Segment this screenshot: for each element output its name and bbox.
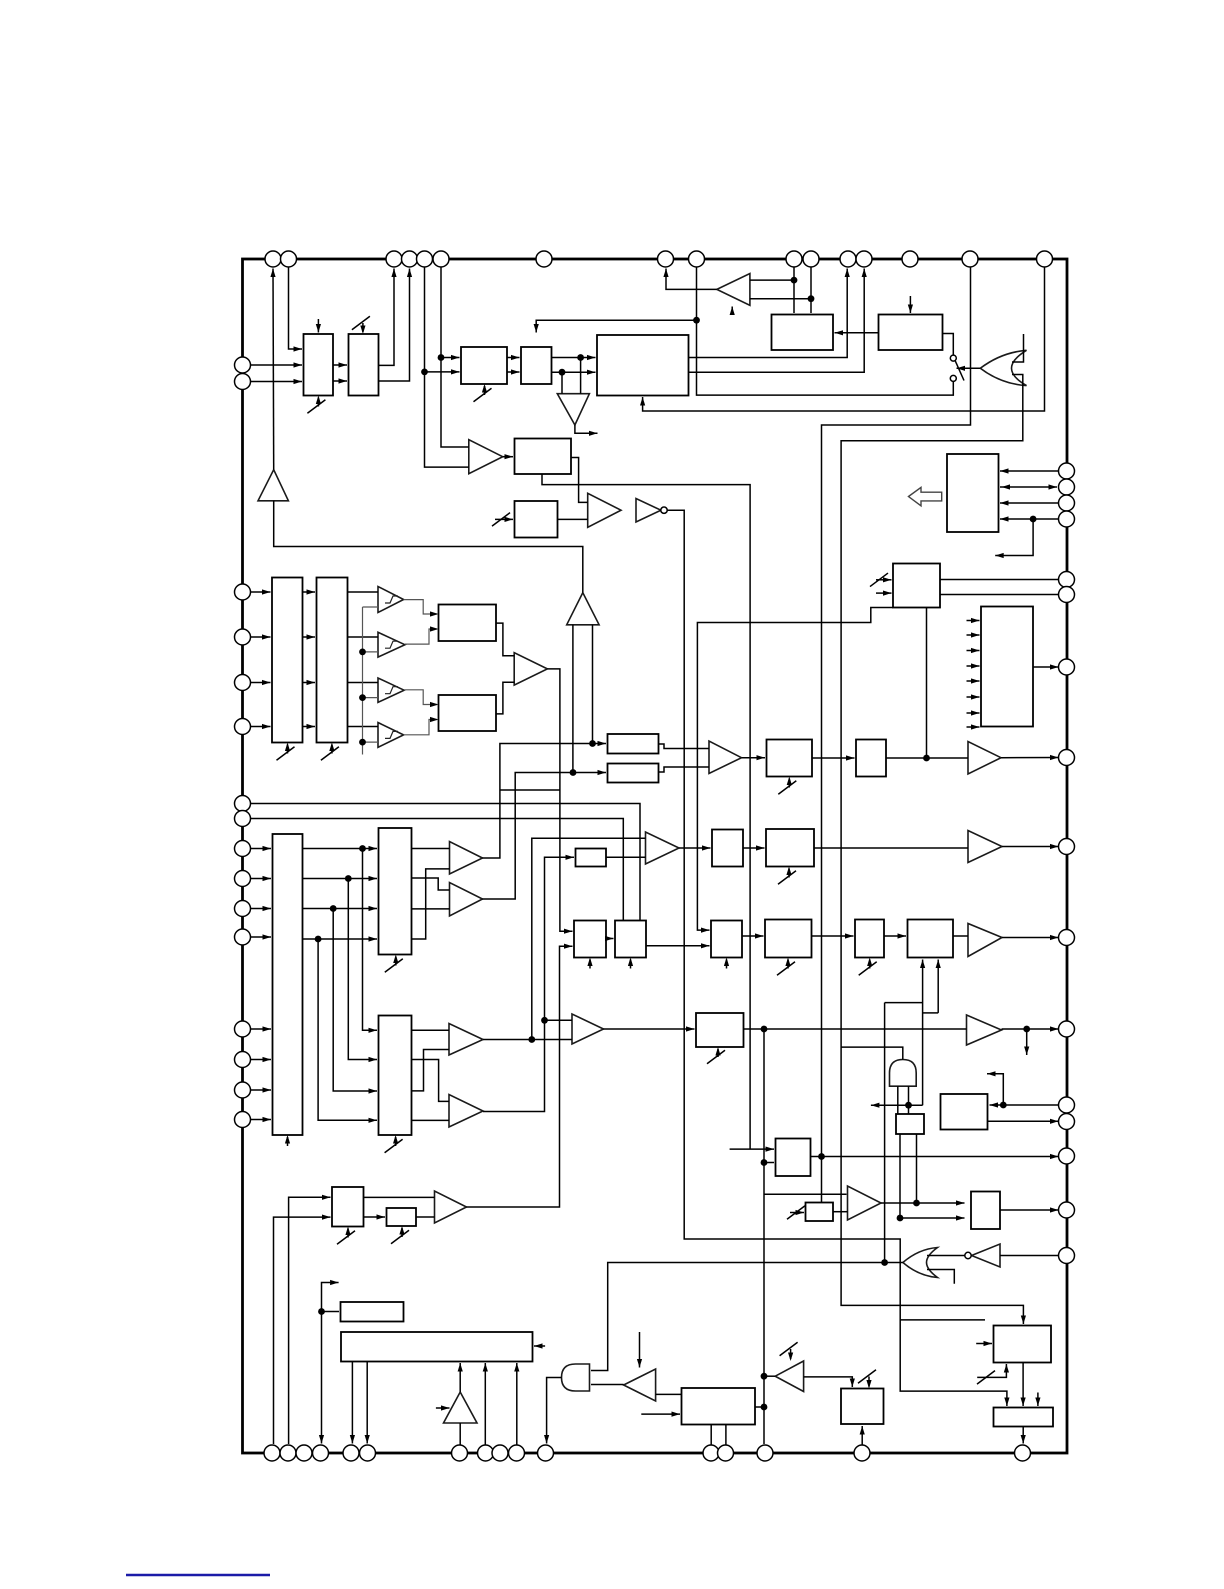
buffer A5 bbox=[514, 653, 547, 685]
wire pin11 to U6 bbox=[810, 267, 812, 313]
pin left 1 bbox=[235, 357, 251, 373]
wire U30 to U31 bbox=[884, 935, 906, 937]
buffer A12 bbox=[968, 831, 1002, 863]
block latch U4 bbox=[521, 347, 552, 384]
wire enable stub A22 bbox=[639, 1332, 641, 1368]
clock U24 bbox=[788, 869, 790, 878]
clock U19 bbox=[788, 779, 790, 788]
wire A23 in from U44 bbox=[804, 1377, 853, 1387]
pin left 5 bbox=[235, 675, 251, 691]
buffer A9 bbox=[709, 741, 742, 774]
wire U33 out to A17 bbox=[744, 1028, 967, 1030]
block latch U22 bbox=[576, 849, 607, 867]
pin bottom 14 bbox=[757, 1445, 773, 1461]
wire node to A8 b bbox=[750, 298, 811, 300]
wire test net pin15 bbox=[822, 267, 971, 1203]
wire node hook up bbox=[987, 1074, 1003, 1105]
block control U36 bbox=[776, 1139, 811, 1177]
pin right 9 bbox=[1059, 839, 1075, 855]
clock U9 bbox=[492, 513, 510, 527]
pin left 13 bbox=[235, 1021, 251, 1037]
wire G2 stub b bbox=[927, 1270, 954, 1284]
wire A5 out to U26 bbox=[547, 669, 572, 931]
pin top 12 bbox=[840, 251, 856, 267]
pin top 6 bbox=[433, 251, 449, 267]
wire G3 out to pin B11 bbox=[547, 1378, 562, 1444]
wire U11 to pin R5 bbox=[940, 579, 1059, 581]
wire U43 out node bbox=[755, 1406, 764, 1408]
wire pin to U25 y1119.5 bbox=[251, 1119, 272, 1121]
block output latch U40 bbox=[971, 1192, 1000, 1230]
OR gate G2 (left-facing) bbox=[903, 1248, 938, 1278]
wire U11 bottom right leg bbox=[926, 608, 928, 759]
pin bottom 3 bbox=[296, 1445, 312, 1461]
buffer A17 bbox=[967, 1015, 1002, 1045]
wire U24 to A12 bbox=[814, 847, 968, 849]
block register U7 bbox=[879, 315, 943, 351]
pin top 3 bbox=[386, 251, 402, 267]
pin left 8 bbox=[235, 811, 251, 827]
wire pin R16 to A24 bbox=[1000, 1255, 1059, 1257]
AND gate G3 (left-facing) bbox=[562, 1364, 590, 1391]
pin bottom 9 bbox=[492, 1445, 508, 1461]
pin left 12 bbox=[235, 929, 251, 945]
pin top 10 bbox=[786, 251, 802, 267]
wire node down x884 bbox=[884, 1003, 886, 1263]
wire U14 to A29 bbox=[348, 726, 379, 728]
wire U25 to U21 b bbox=[303, 878, 378, 880]
block divider U20 bbox=[856, 740, 886, 777]
bus arrow symbol bbox=[909, 487, 942, 505]
wire A12 to pin R9 bbox=[1002, 846, 1059, 848]
wire branch to U32 in4 bbox=[318, 939, 377, 1120]
pin top 2 bbox=[281, 251, 297, 267]
pin left 16 bbox=[235, 1112, 251, 1128]
wire A15 to pin R10 bbox=[1002, 937, 1059, 939]
wire A10 to pin R8 bbox=[1001, 757, 1059, 759]
block data register U32 bbox=[379, 1016, 412, 1136]
pin bottom 13 bbox=[718, 1445, 734, 1461]
wire U29 to U30 bbox=[812, 935, 854, 937]
wire U46 out to pin B16 bbox=[1022, 1427, 1024, 1444]
wire G4 inputs bbox=[897, 1086, 899, 1114]
block clock generator U42 bbox=[341, 1332, 533, 1362]
block power-on reset U45 bbox=[994, 1326, 1052, 1363]
block shift register U11 bbox=[893, 564, 940, 608]
wire pin9 to switch contact bbox=[697, 267, 954, 395]
wire branch stub bbox=[900, 1319, 985, 1321]
pin left 9 bbox=[235, 841, 251, 857]
wire node down stub bbox=[1026, 1029, 1028, 1055]
wire link y790 bbox=[500, 789, 560, 791]
wire pin R3 to U10 bbox=[1000, 502, 1059, 504]
clock U32 bbox=[395, 1137, 397, 1146]
wire U42 to pin B5 bbox=[351, 1362, 353, 1444]
pin bottom 8 bbox=[478, 1445, 494, 1461]
block timer U37 bbox=[332, 1187, 364, 1227]
wire pin B2 up to U37 bbox=[289, 1197, 331, 1444]
wire stub U12 in 7 bbox=[967, 712, 980, 714]
schmitt trigger A27 bbox=[378, 632, 405, 657]
clock input U39 bbox=[787, 1206, 805, 1220]
wire stub to U43 bbox=[641, 1413, 680, 1415]
wire U19 to U20 bbox=[812, 757, 855, 759]
wire G1 out to SW1 bbox=[957, 367, 981, 369]
wire pin17 to U1 bbox=[251, 364, 303, 366]
wire U33 net down bbox=[763, 1029, 765, 1444]
wire pin L8 net bbox=[251, 819, 624, 921]
wire U12 to pin R7 bbox=[1033, 666, 1059, 668]
wire A7 long net bbox=[667, 510, 1007, 1406]
bus shaft of A2 bbox=[573, 625, 593, 773]
wire pin to U13 y637 bbox=[251, 636, 271, 638]
wire U5 to pin13 bbox=[689, 269, 865, 373]
pin left 14 bbox=[235, 1052, 251, 1068]
clock U25 bbox=[287, 1137, 289, 1146]
wire A26 out to U15 bbox=[404, 600, 437, 614]
wire pin B15 to U44 bbox=[861, 1426, 863, 1445]
pin top 7 bbox=[536, 251, 552, 267]
wire node to U41 bbox=[322, 1311, 340, 1313]
pin left 15 bbox=[235, 1082, 251, 1098]
clock U30 bbox=[869, 960, 871, 969]
clock U28 bbox=[726, 960, 728, 969]
block latch U26 bbox=[574, 921, 606, 958]
pin top 8 bbox=[658, 251, 674, 267]
wire U4 to U5 b bbox=[552, 371, 596, 373]
block watchdog U43 bbox=[682, 1388, 756, 1425]
buffer A16 bbox=[572, 1014, 604, 1044]
clock U2 bbox=[362, 323, 364, 332]
wire G2 out to G3 bbox=[591, 1263, 903, 1371]
wire G4 out up bbox=[841, 1047, 903, 1059]
block divider U38 bbox=[387, 1208, 417, 1226]
pin right 11 bbox=[1059, 1021, 1075, 1037]
wire A25 to U42 bbox=[459, 1363, 461, 1392]
wire stub U12 in 2 bbox=[967, 634, 980, 636]
OR gate G1 (left-facing) bbox=[980, 350, 1026, 385]
pin right 12 bbox=[1059, 1097, 1075, 1113]
pin right 14 bbox=[1059, 1148, 1075, 1164]
pin top 9 bbox=[689, 251, 705, 267]
wire net to A21 in1 bbox=[764, 1193, 847, 1195]
inverter A23 bbox=[775, 1361, 803, 1392]
pin bottom 4 bbox=[313, 1445, 329, 1461]
wire U20 to A10 bbox=[886, 757, 968, 759]
wire stub U12 in 1 bbox=[967, 620, 980, 622]
block timer U8 bbox=[515, 439, 572, 475]
wire pin18 to U1 bbox=[251, 381, 303, 383]
wire A2 to A1 bbox=[274, 501, 583, 593]
clock U29 bbox=[787, 960, 789, 969]
wire pin to U25 y1029 bbox=[251, 1028, 272, 1030]
wire U13 to U14 y726.5 bbox=[303, 726, 316, 728]
wire U1 to U2 a bbox=[333, 364, 347, 366]
wire G4 input b bbox=[908, 1086, 910, 1114]
wire A18 out net bbox=[483, 1039, 572, 1041]
wire U37 to A20 a bbox=[364, 1196, 435, 1198]
block counter U3 bbox=[461, 347, 507, 384]
block prescaler U1 bbox=[304, 334, 334, 396]
block oscillator U41 bbox=[341, 1302, 404, 1322]
wire A27 out to U15 bbox=[405, 629, 437, 644]
pin right 5 bbox=[1059, 572, 1075, 588]
wire A13 out to U17 bbox=[483, 744, 607, 859]
wire pin16 net to U5 bottom bbox=[643, 267, 1045, 411]
wire pin6 net bbox=[441, 267, 469, 447]
wire U34 to U40 b bbox=[900, 1134, 965, 1218]
pin bottom 10 bbox=[509, 1445, 525, 1461]
buffer A6 bbox=[588, 493, 621, 527]
block input register U13 bbox=[272, 578, 303, 743]
clock U44 bbox=[868, 1377, 870, 1387]
wire stub U12 in 5 bbox=[967, 680, 980, 682]
wire U1 to U2 b bbox=[333, 380, 347, 382]
wire up into U31 b bbox=[937, 960, 939, 1013]
pin left 10 bbox=[235, 871, 251, 887]
footer rule bbox=[126, 1574, 270, 1577]
wire U18 to A9 bbox=[659, 767, 710, 772]
wire pin B8 into U42 bbox=[484, 1363, 486, 1445]
clock U27 bbox=[630, 960, 632, 969]
block register U17 bbox=[608, 734, 659, 754]
wire node to U36 b bbox=[764, 1162, 774, 1164]
wire clk stub U39 bbox=[790, 1212, 804, 1214]
pin left 2 bbox=[235, 374, 251, 390]
wire U38 to A20 b bbox=[416, 1216, 435, 1218]
pin right 16 bbox=[1059, 1248, 1075, 1264]
buffer A4 bbox=[469, 440, 503, 474]
analog switch SW1 bbox=[950, 355, 956, 361]
wire pin to U25 y1090 bbox=[251, 1089, 272, 1091]
wire U35 to pin R13 bbox=[988, 1120, 1059, 1122]
wire node to A8 a bbox=[750, 279, 794, 281]
wire A9 to U19 bbox=[742, 757, 766, 759]
pin left 7 bbox=[235, 796, 251, 812]
wire U11 to pin R6 bbox=[940, 594, 1059, 596]
wire U32 to A18 in1 bbox=[412, 1029, 450, 1031]
wire branch to U32 in1 bbox=[363, 849, 378, 1031]
pin left 11 bbox=[235, 901, 251, 917]
inverter A24 bbox=[972, 1244, 1001, 1267]
wire clock into U45 bbox=[977, 1364, 1006, 1377]
pin bottom 7 bbox=[452, 1445, 468, 1461]
wire U2 to pin4 bbox=[379, 269, 410, 382]
pin top 1 bbox=[265, 251, 281, 267]
pin left 4 bbox=[235, 629, 251, 645]
wire A24 to G2 bbox=[927, 1255, 965, 1257]
wire node up to A11 in1 bbox=[532, 838, 646, 1039]
wire pin5 branch to U3 bbox=[425, 371, 460, 373]
wire U14 to A27 bbox=[348, 636, 379, 638]
pin right 6 bbox=[1059, 587, 1075, 603]
wire U4 to U5 a bbox=[552, 357, 596, 359]
wire U23 to U24 bbox=[743, 847, 765, 849]
wire U11 bottom to U28 bbox=[697, 608, 893, 931]
wire node to A3 a bbox=[580, 358, 582, 394]
wire up into U31 a bbox=[922, 960, 924, 1106]
wire into U1 top bbox=[317, 319, 319, 333]
wire A19 up to U22 bbox=[483, 857, 574, 1111]
pin bottom 2 bbox=[280, 1445, 296, 1461]
pin bottom 15 bbox=[854, 1445, 870, 1461]
clock U14 bbox=[331, 745, 333, 754]
wire pin2 to U1 bbox=[289, 267, 303, 349]
buffer A15 bbox=[968, 924, 1002, 957]
wire A8 to pin8 bbox=[666, 269, 717, 290]
wire stub U11 in a bbox=[876, 579, 892, 581]
wire pin R12 to U35 bbox=[990, 1104, 1059, 1106]
schmitt trigger A28 bbox=[378, 678, 404, 702]
block latch U28 bbox=[711, 921, 742, 958]
wire link c bbox=[885, 1002, 923, 1004]
schmitt trigger A29 bbox=[378, 723, 404, 748]
wire U31 to A15 bbox=[953, 935, 968, 937]
block divider U30 bbox=[855, 920, 884, 958]
wire link b bbox=[923, 1012, 939, 1014]
buffer A20 bbox=[435, 1191, 467, 1223]
wire U8 right jog bbox=[571, 458, 588, 503]
reference net for schmitt triggers bbox=[363, 607, 379, 755]
clock U33 bbox=[717, 1049, 719, 1057]
wire U43 to A22 bbox=[656, 1393, 682, 1395]
wire pin to U13 y726.5 bbox=[251, 726, 271, 728]
wire U14 to A26 bbox=[348, 591, 379, 593]
clock U21 bbox=[395, 957, 397, 966]
buffer A14 bbox=[450, 883, 483, 917]
wire U28 to U29 bbox=[742, 935, 764, 937]
schmitt trigger A26 bbox=[378, 587, 404, 613]
buffer A3 bbox=[557, 394, 589, 425]
block divider U39 bbox=[806, 1203, 834, 1222]
wire A21 out to U40 bbox=[881, 1202, 965, 1204]
wire pin B10 into U42 bbox=[516, 1363, 518, 1445]
inverter A7 bbox=[636, 499, 661, 523]
wire pin to U25 y908.5 bbox=[251, 908, 272, 910]
wire A11 to U23 bbox=[679, 847, 711, 849]
wire A1 to pin1 bbox=[272, 269, 275, 470]
block encoder U15 bbox=[439, 605, 497, 642]
block decoder U12 bbox=[981, 607, 1033, 727]
buffer A13 bbox=[450, 842, 483, 875]
wire pin10 to U6 bbox=[793, 267, 795, 313]
clock U38 bbox=[401, 1228, 403, 1237]
clock U1 bbox=[317, 398, 319, 407]
wire pin5 net bbox=[425, 267, 469, 467]
wire G1 input A stub bbox=[1012, 334, 1024, 362]
pin bottom 1 bbox=[264, 1445, 280, 1461]
block port register U25 bbox=[273, 834, 303, 1135]
buffer A19 bbox=[449, 1095, 483, 1128]
pin right 2 bbox=[1059, 479, 1075, 495]
buffer A18 bbox=[449, 1024, 483, 1056]
wire U45 out to U46 bbox=[1022, 1363, 1024, 1407]
wire A14 out to U18 bbox=[483, 773, 607, 900]
pin bottom 6 bbox=[360, 1445, 376, 1461]
wire U42 to pin B6 bbox=[366, 1362, 368, 1444]
wire U17 to A9 bbox=[659, 744, 710, 749]
clock U26 bbox=[589, 960, 591, 969]
pin right 1 bbox=[1059, 463, 1075, 479]
block input latch U14 bbox=[317, 578, 348, 743]
wire A8 enable stub bbox=[731, 307, 733, 314]
pin top 13 bbox=[856, 251, 872, 267]
wire U27 to U28 bbox=[646, 945, 710, 947]
block divider U23 bbox=[712, 830, 743, 867]
inverter A22 bbox=[624, 1369, 656, 1401]
wire U5 to pin12 bbox=[689, 269, 848, 358]
wire stub U12 in 8 bbox=[967, 726, 980, 728]
wire stub U12 in 4 bbox=[967, 665, 980, 667]
pin bottom 12 bbox=[703, 1445, 719, 1461]
block counter U29 bbox=[765, 920, 812, 958]
pin right 3 bbox=[1059, 495, 1075, 511]
wire U15 to A5 bbox=[496, 623, 514, 656]
wire pin6 branch to U3 bbox=[441, 357, 460, 359]
wire pin L7 net bbox=[251, 804, 641, 921]
IC outline border bbox=[243, 259, 1068, 1453]
wire A3 output bbox=[575, 425, 598, 433]
wire A16 to U33 bbox=[604, 1028, 695, 1030]
buffer A10 bbox=[968, 742, 1001, 775]
buffer A21 bbox=[848, 1186, 882, 1220]
wire A29 out to U16 bbox=[404, 720, 437, 735]
pin top 4 bbox=[402, 251, 418, 267]
wire A28 out to U16 bbox=[404, 690, 437, 705]
block encoder U16 bbox=[439, 695, 497, 731]
wire stub into U42 bbox=[534, 1345, 545, 1347]
wire U43 to pin B13 bbox=[725, 1425, 727, 1446]
block latch U27 bbox=[615, 921, 646, 958]
block data register U21 bbox=[379, 828, 412, 955]
block counter U24 bbox=[766, 829, 814, 867]
pin top 14 bbox=[902, 251, 918, 267]
wire A20 out to U26 bbox=[467, 946, 573, 1207]
wire U3 to U4 b bbox=[507, 371, 520, 373]
wire U39 to A21 bbox=[833, 1211, 848, 1213]
wire node into U4 top bbox=[536, 320, 696, 332]
pin right 13 bbox=[1059, 1114, 1075, 1130]
wire U43 to pin B12 bbox=[710, 1425, 712, 1446]
pin left 6 bbox=[235, 719, 251, 735]
pin right 7 bbox=[1059, 659, 1075, 675]
wire U40 to pin R15 bbox=[1000, 1209, 1059, 1211]
wire stub U12 in 6 bbox=[967, 696, 980, 698]
wire branch to U32 in3 bbox=[333, 909, 377, 1092]
wire U32 to A19 in2 bbox=[412, 1119, 450, 1121]
buffer A2 bbox=[567, 593, 599, 625]
wire pin B1 up to U37 bbox=[274, 1217, 331, 1444]
wire U16 to A5 bbox=[496, 682, 514, 714]
wire pin B7 to A25 bbox=[459, 1423, 461, 1445]
wire pin to U13 y682.5 bbox=[251, 682, 271, 684]
wire branch to G1 input B bbox=[1012, 375, 1023, 412]
wire U25 to U21 a bbox=[303, 848, 378, 850]
pin bottom 11 bbox=[538, 1445, 554, 1461]
wire xtal net bbox=[322, 1283, 339, 1444]
wire stub into U7 top bbox=[909, 296, 911, 313]
pin right 8 bbox=[1059, 750, 1075, 766]
wire A4 to U8 bbox=[503, 456, 513, 458]
wire pin R1 to U10 bbox=[1000, 470, 1059, 472]
wire U13 to U14 y592 bbox=[303, 591, 316, 593]
wire stub into U45 bbox=[976, 1343, 992, 1345]
block divider U2 bbox=[349, 334, 379, 396]
wire node to A3 b bbox=[561, 372, 563, 394]
block reset circuit U44 bbox=[841, 1389, 884, 1425]
wire U40 clock stub bbox=[1037, 1393, 1039, 1407]
wire A17 to pin R11 bbox=[1002, 1028, 1059, 1030]
